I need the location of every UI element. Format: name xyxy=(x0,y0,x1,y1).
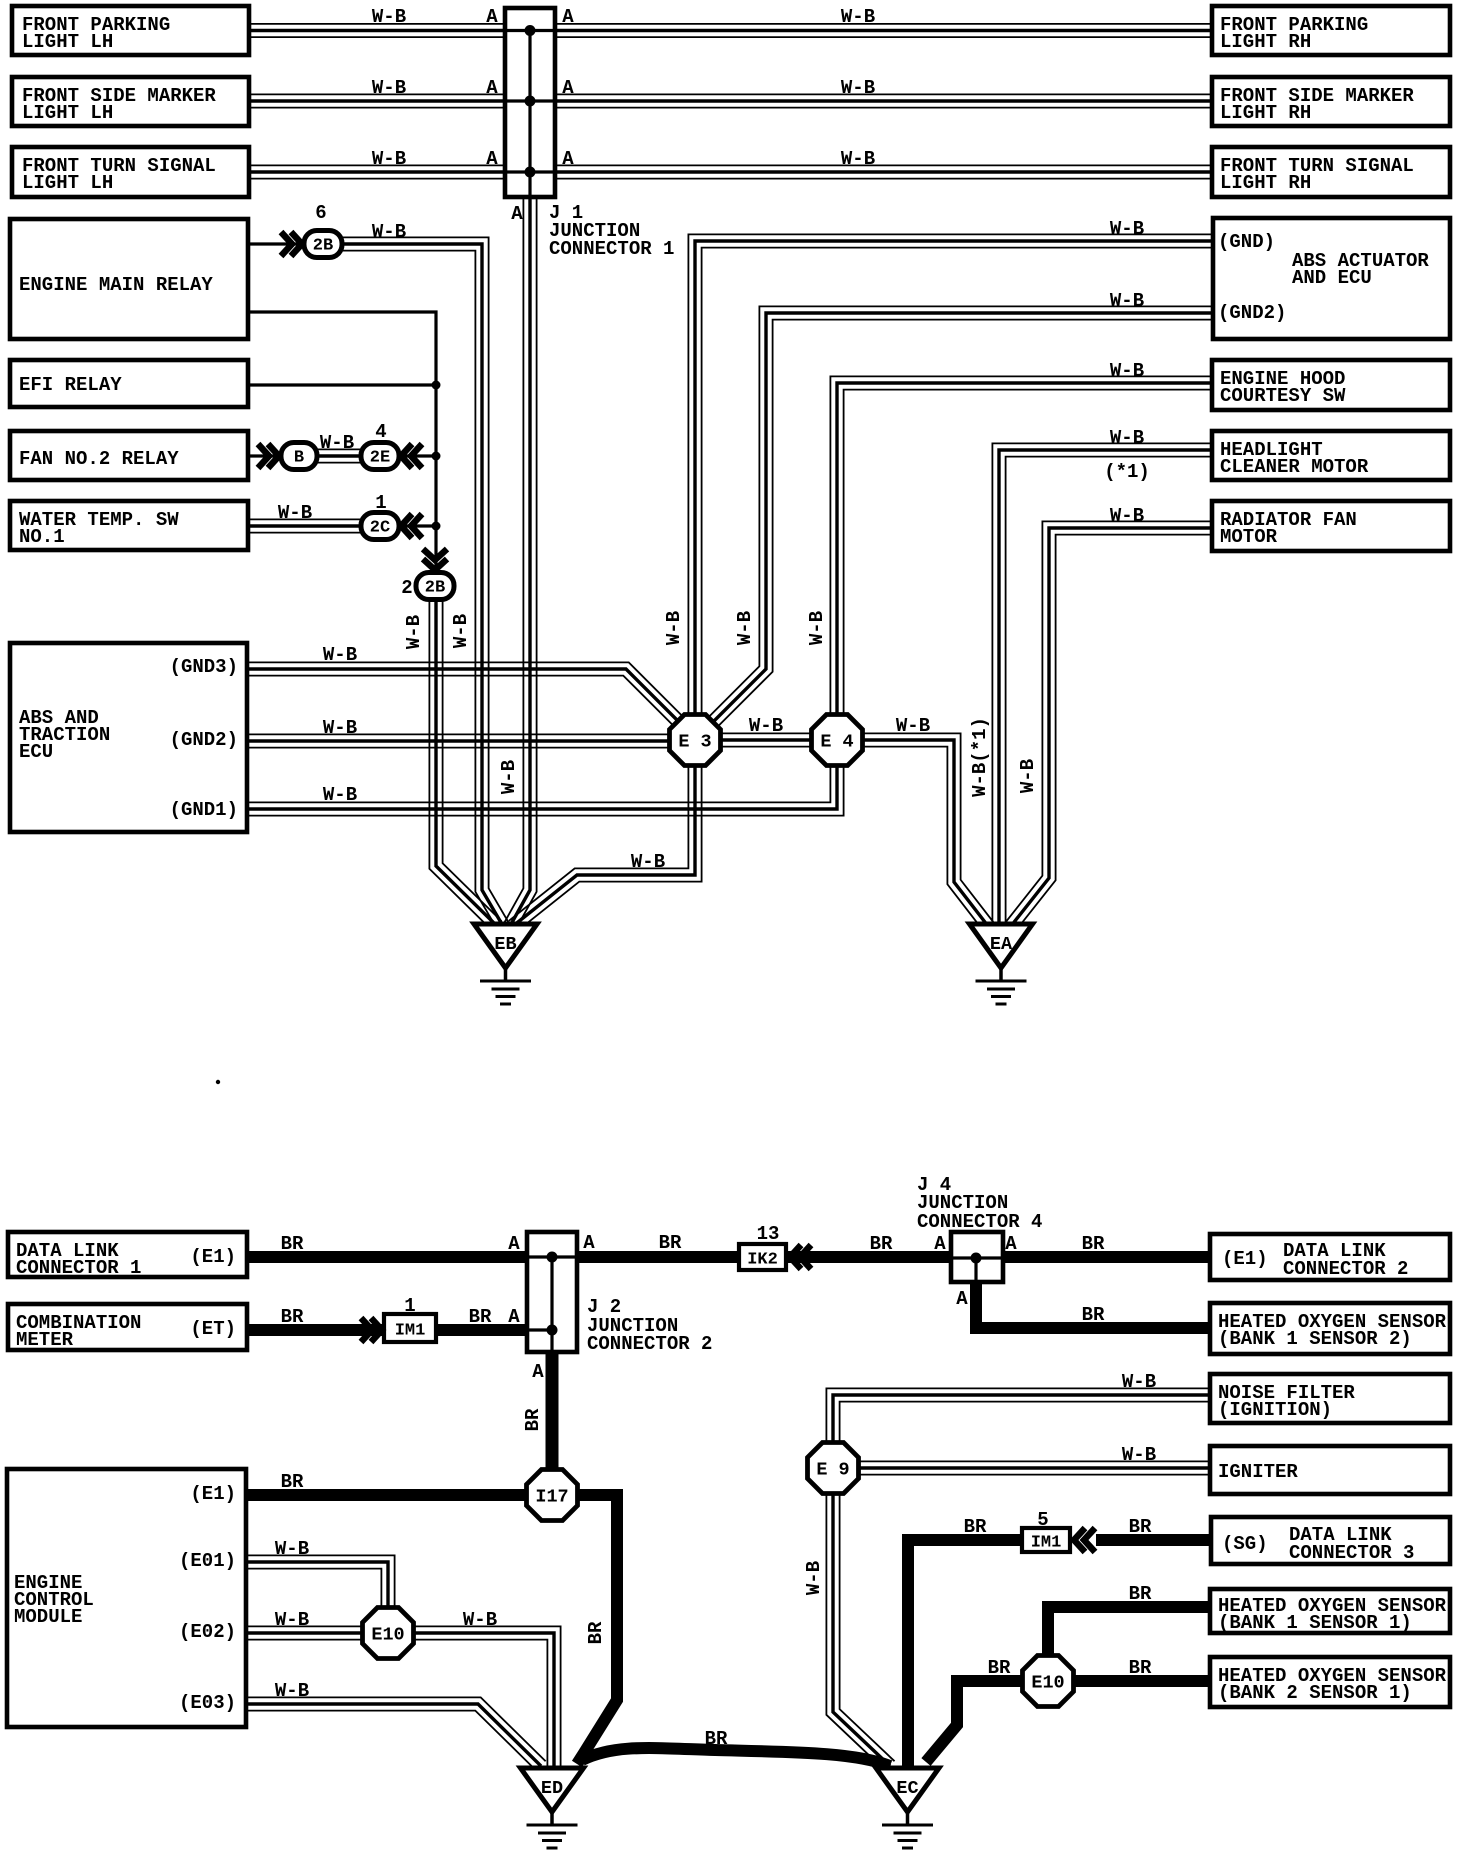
svg-text:A: A xyxy=(562,77,574,99)
svg-text:COURTESY SW: COURTESY SW xyxy=(1220,385,1346,407)
svg-text:BR: BR xyxy=(988,1657,1011,1679)
svg-text:I17: I17 xyxy=(535,1487,568,1508)
svg-text:A: A xyxy=(532,1361,544,1383)
svg-text:BR: BR xyxy=(522,1408,544,1431)
svg-text:W-B: W-B xyxy=(320,432,354,454)
svg-text:W-B: W-B xyxy=(1110,505,1144,527)
svg-text:W-B: W-B xyxy=(372,148,406,170)
svg-text:(E01): (E01) xyxy=(179,1550,236,1572)
svg-text:CONNECTOR 2: CONNECTOR 2 xyxy=(1283,1258,1408,1280)
svg-text:(GND2): (GND2) xyxy=(170,729,238,751)
svg-text:BR: BR xyxy=(1129,1657,1152,1679)
svg-text:IM1: IM1 xyxy=(395,1322,426,1341)
svg-text:IM1: IM1 xyxy=(1031,1534,1062,1553)
svg-text:W-B: W-B xyxy=(372,221,406,243)
svg-text:LIGHT RH: LIGHT RH xyxy=(1220,172,1311,194)
svg-text:(IGNITION): (IGNITION) xyxy=(1218,1399,1332,1421)
svg-text:BR: BR xyxy=(659,1232,682,1254)
svg-text:W-B: W-B xyxy=(275,1680,309,1702)
svg-text:EC: EC xyxy=(896,1778,918,1799)
svg-text:CLEANER MOTOR: CLEANER MOTOR xyxy=(1220,456,1369,478)
svg-text:A: A xyxy=(934,1233,946,1255)
svg-text:ED: ED xyxy=(541,1778,563,1799)
svg-text:13: 13 xyxy=(757,1223,780,1245)
svg-text:B: B xyxy=(294,449,304,468)
svg-text:MODULE: MODULE xyxy=(14,1606,82,1628)
svg-text:LIGHT LH: LIGHT LH xyxy=(22,31,113,53)
svg-text:W-B: W-B xyxy=(803,1561,825,1595)
svg-text:CONNECTOR 3: CONNECTOR 3 xyxy=(1289,1542,1414,1564)
svg-text:W-B: W-B xyxy=(841,148,875,170)
svg-text:NO.1: NO.1 xyxy=(19,526,65,548)
svg-text:METER: METER xyxy=(16,1329,74,1351)
svg-text:W-B: W-B xyxy=(450,614,472,648)
svg-text:W-B: W-B xyxy=(463,1609,497,1631)
svg-text:BR: BR xyxy=(1129,1583,1152,1605)
svg-text:(ET): (ET) xyxy=(190,1318,236,1340)
svg-text:E 3: E 3 xyxy=(678,732,711,753)
svg-text:W-B: W-B xyxy=(631,851,665,873)
svg-text:W-B: W-B xyxy=(841,6,875,28)
svg-text:6: 6 xyxy=(315,202,326,224)
svg-text:A: A xyxy=(511,203,523,225)
svg-text:LIGHT RH: LIGHT RH xyxy=(1220,102,1311,124)
svg-text:(SG): (SG) xyxy=(1222,1533,1268,1555)
svg-text:BR: BR xyxy=(281,1233,304,1255)
svg-text:W-B: W-B xyxy=(1110,218,1144,240)
svg-text:IK2: IK2 xyxy=(747,1251,778,1270)
svg-text:BR: BR xyxy=(469,1306,492,1328)
svg-text:CONNECTOR 1: CONNECTOR 1 xyxy=(16,1257,141,1279)
svg-text:E10: E10 xyxy=(1031,1673,1064,1694)
svg-text:A: A xyxy=(583,1232,595,1254)
svg-text:(E02): (E02) xyxy=(179,1621,236,1643)
svg-text:(*1): (*1) xyxy=(1104,461,1150,483)
svg-text:(GND3): (GND3) xyxy=(170,656,238,678)
svg-text:FAN NO.2 RELAY: FAN NO.2 RELAY xyxy=(19,448,179,470)
svg-text:A: A xyxy=(486,6,498,28)
svg-text:BR: BR xyxy=(705,1728,728,1750)
svg-text:W-B(*1): W-B(*1) xyxy=(969,717,991,797)
svg-text:W-B: W-B xyxy=(896,715,930,737)
svg-text:(BANK 1 SENSOR 1): (BANK 1 SENSOR 1) xyxy=(1218,1612,1412,1634)
svg-text:A: A xyxy=(486,148,498,170)
svg-text:E 9: E 9 xyxy=(816,1460,849,1481)
svg-text:BR: BR xyxy=(870,1233,893,1255)
svg-text:BR: BR xyxy=(1082,1233,1105,1255)
svg-text:W-B: W-B xyxy=(806,611,828,645)
svg-text:AND ECU: AND ECU xyxy=(1292,267,1372,289)
svg-text:(GND1): (GND1) xyxy=(170,799,238,821)
svg-text:BR: BR xyxy=(1129,1516,1152,1538)
svg-text:(E1): (E1) xyxy=(1222,1248,1268,1270)
svg-text:2B: 2B xyxy=(313,237,333,256)
svg-text:(E1): (E1) xyxy=(190,1246,236,1268)
svg-text:4: 4 xyxy=(375,421,386,443)
svg-text:EFI RELAY: EFI RELAY xyxy=(19,374,122,396)
svg-text:(GND): (GND) xyxy=(1218,231,1275,253)
svg-text:(GND2): (GND2) xyxy=(1218,302,1286,324)
svg-text:W-B: W-B xyxy=(1110,427,1144,449)
svg-text:W-B: W-B xyxy=(734,611,756,645)
svg-text:A: A xyxy=(562,6,574,28)
svg-text:IGNITER: IGNITER xyxy=(1218,1461,1298,1483)
svg-text:W-B: W-B xyxy=(1122,1444,1156,1466)
svg-text:W-B: W-B xyxy=(323,644,357,666)
svg-text:ECU: ECU xyxy=(19,741,53,763)
svg-text:MOTOR: MOTOR xyxy=(1220,526,1278,548)
svg-text:BR: BR xyxy=(281,1471,304,1493)
svg-text:E 4: E 4 xyxy=(820,732,853,753)
svg-text:(E1): (E1) xyxy=(190,1483,236,1505)
svg-text:W-B: W-B xyxy=(278,502,312,524)
svg-text:BR: BR xyxy=(1082,1304,1105,1326)
svg-text:A: A xyxy=(486,77,498,99)
svg-text:W-B: W-B xyxy=(323,717,357,739)
svg-text:2E: 2E xyxy=(370,449,390,468)
svg-text:A: A xyxy=(956,1288,968,1310)
svg-text:5: 5 xyxy=(1037,1509,1048,1531)
svg-text:E10: E10 xyxy=(371,1625,404,1646)
svg-text:BR: BR xyxy=(281,1306,304,1328)
svg-text:BR: BR xyxy=(964,1516,987,1538)
svg-text:W-B: W-B xyxy=(749,715,783,737)
svg-text:LIGHT LH: LIGHT LH xyxy=(22,172,113,194)
svg-text:CONNECTOR 1: CONNECTOR 1 xyxy=(549,238,674,260)
svg-text:EB: EB xyxy=(494,934,516,955)
svg-text:2C: 2C xyxy=(370,519,390,538)
svg-text:LIGHT LH: LIGHT LH xyxy=(22,102,113,124)
svg-text:A: A xyxy=(562,148,574,170)
svg-text:A: A xyxy=(1005,1233,1017,1255)
svg-text:W-B: W-B xyxy=(372,77,406,99)
svg-text:1: 1 xyxy=(375,492,386,514)
svg-text:W-B: W-B xyxy=(841,77,875,99)
svg-text:W-B: W-B xyxy=(1110,290,1144,312)
svg-text:W-B: W-B xyxy=(372,6,406,28)
svg-text:2: 2 xyxy=(401,577,412,599)
svg-text:W-B: W-B xyxy=(663,611,685,645)
svg-text:2B: 2B xyxy=(425,579,445,598)
svg-text:EA: EA xyxy=(990,934,1013,955)
svg-text:W-B: W-B xyxy=(275,1538,309,1560)
svg-text:A: A xyxy=(508,1233,520,1255)
svg-text:W-B: W-B xyxy=(1110,360,1144,382)
svg-text:W-B: W-B xyxy=(323,784,357,806)
svg-text:W-B: W-B xyxy=(498,760,520,794)
svg-text:W-B: W-B xyxy=(403,615,425,649)
svg-text:W-B: W-B xyxy=(1017,759,1039,793)
svg-text:(BANK 1 SENSOR 2): (BANK 1 SENSOR 2) xyxy=(1218,1328,1412,1350)
svg-text:(E03): (E03) xyxy=(179,1692,236,1714)
svg-text:1: 1 xyxy=(404,1295,415,1317)
svg-text:A: A xyxy=(508,1306,520,1328)
svg-text:LIGHT RH: LIGHT RH xyxy=(1220,31,1311,53)
svg-text:CONNECTOR 2: CONNECTOR 2 xyxy=(587,1333,712,1355)
svg-text:(BANK 2 SENSOR 1): (BANK 2 SENSOR 1) xyxy=(1218,1682,1412,1704)
svg-text:W-B: W-B xyxy=(275,1609,309,1631)
svg-text:W-B: W-B xyxy=(1122,1371,1156,1393)
svg-text:ENGINE MAIN RELAY: ENGINE MAIN RELAY xyxy=(19,274,213,296)
svg-text:CONNECTOR 4: CONNECTOR 4 xyxy=(917,1211,1042,1233)
svg-text:BR: BR xyxy=(585,1621,607,1644)
